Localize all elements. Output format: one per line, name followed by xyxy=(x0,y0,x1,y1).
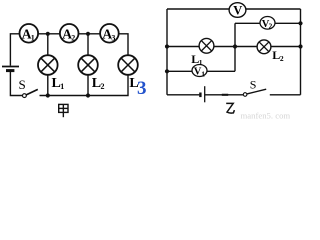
label L1 (right) xyxy=(191,52,203,67)
lamp L1 xyxy=(38,55,58,75)
label L3 (left, blue 3) xyxy=(129,76,146,99)
svg-text:2: 2 xyxy=(269,23,273,31)
svg-text:manfen5. com: manfen5. com xyxy=(241,110,291,120)
label L1 (left) xyxy=(52,76,65,91)
wire: V2 branch horizontal xyxy=(235,22,301,24)
wire: bottom bus of left circuit xyxy=(40,75,129,96)
wire: lamp L2 bottom drop xyxy=(87,75,89,96)
node: right edge / lamp branch xyxy=(298,44,302,48)
node: right edge / V2 branch xyxy=(298,21,302,25)
wire: lamp L1 bottom drop xyxy=(47,75,49,96)
node: junction bottom under L1 xyxy=(46,93,50,97)
wire: V1 branch horizontal xyxy=(167,70,235,72)
node: middle X between L1 and L2 xyxy=(233,44,237,48)
svg-text:1: 1 xyxy=(199,58,203,67)
switch S2 lever xyxy=(247,89,266,94)
switch S1 lever xyxy=(26,89,38,95)
battery B2 short plate xyxy=(199,93,201,98)
svg-text:3: 3 xyxy=(137,78,147,99)
wire: lamp L1 top drop xyxy=(47,34,49,56)
switch S2 pivot circle xyxy=(243,93,247,97)
wire: left vertical below battery to bottom bus xyxy=(10,72,22,96)
wire: outer top bus xyxy=(167,8,301,10)
svg-text:S: S xyxy=(19,77,26,92)
wire: bottom bus middle segment to switch xyxy=(205,94,244,96)
svg-text:2: 2 xyxy=(280,54,284,63)
wire: darker scan dash on bottom bus xyxy=(222,94,228,96)
svg-text:S: S xyxy=(250,78,257,92)
battery B2 long plate xyxy=(204,86,206,102)
label L2 (right) xyxy=(272,48,284,63)
wire: outer left edge xyxy=(166,9,168,95)
node: junction top between A1 and A2 xyxy=(46,32,50,36)
svg-text:1: 1 xyxy=(31,33,35,42)
node: left edge / lamp branch xyxy=(165,44,169,48)
svg-text:1: 1 xyxy=(201,69,205,78)
battery B1 long plate xyxy=(2,66,19,68)
lamp L3 xyxy=(118,55,138,75)
voltmeter V1 xyxy=(192,65,207,79)
voltmeter V xyxy=(229,3,246,18)
wire: lamp L2 top drop xyxy=(87,34,89,56)
svg-text:1: 1 xyxy=(60,82,64,91)
wire: lamp branch horizontal xyxy=(167,46,301,48)
wire: top bus of left circuit xyxy=(10,34,128,66)
svg-text:V: V xyxy=(233,4,242,18)
ammeter A1 xyxy=(20,24,39,43)
ammeter A3 xyxy=(100,24,119,43)
wire: middle vertical x=235 xyxy=(234,23,236,71)
lamp L2 xyxy=(78,55,98,75)
label 甲 (drawn strokes) xyxy=(59,104,68,117)
ammeter A2 xyxy=(60,24,79,43)
wire: bottom bus left segment to battery xyxy=(167,94,199,96)
switch S1 pivot circle xyxy=(23,94,27,98)
voltmeter V2 xyxy=(260,17,275,31)
label L2 (left) xyxy=(92,76,105,91)
lamp L1 (right) xyxy=(199,38,214,53)
wire: bottom bus right segment xyxy=(270,94,301,96)
lamp L2 (right) xyxy=(257,40,271,54)
node: junction bottom under L2 xyxy=(86,93,90,97)
svg-text:3: 3 xyxy=(111,33,115,42)
battery B1 short plate xyxy=(6,69,14,72)
node: left edge / V1 branch xyxy=(165,69,169,73)
node: junction top between A2 and A3 xyxy=(86,32,90,36)
svg-text:2: 2 xyxy=(71,33,75,42)
svg-text:2: 2 xyxy=(101,82,105,91)
label 乙 (drawn strokes) xyxy=(226,103,234,113)
wire: outer right edge xyxy=(300,9,302,95)
